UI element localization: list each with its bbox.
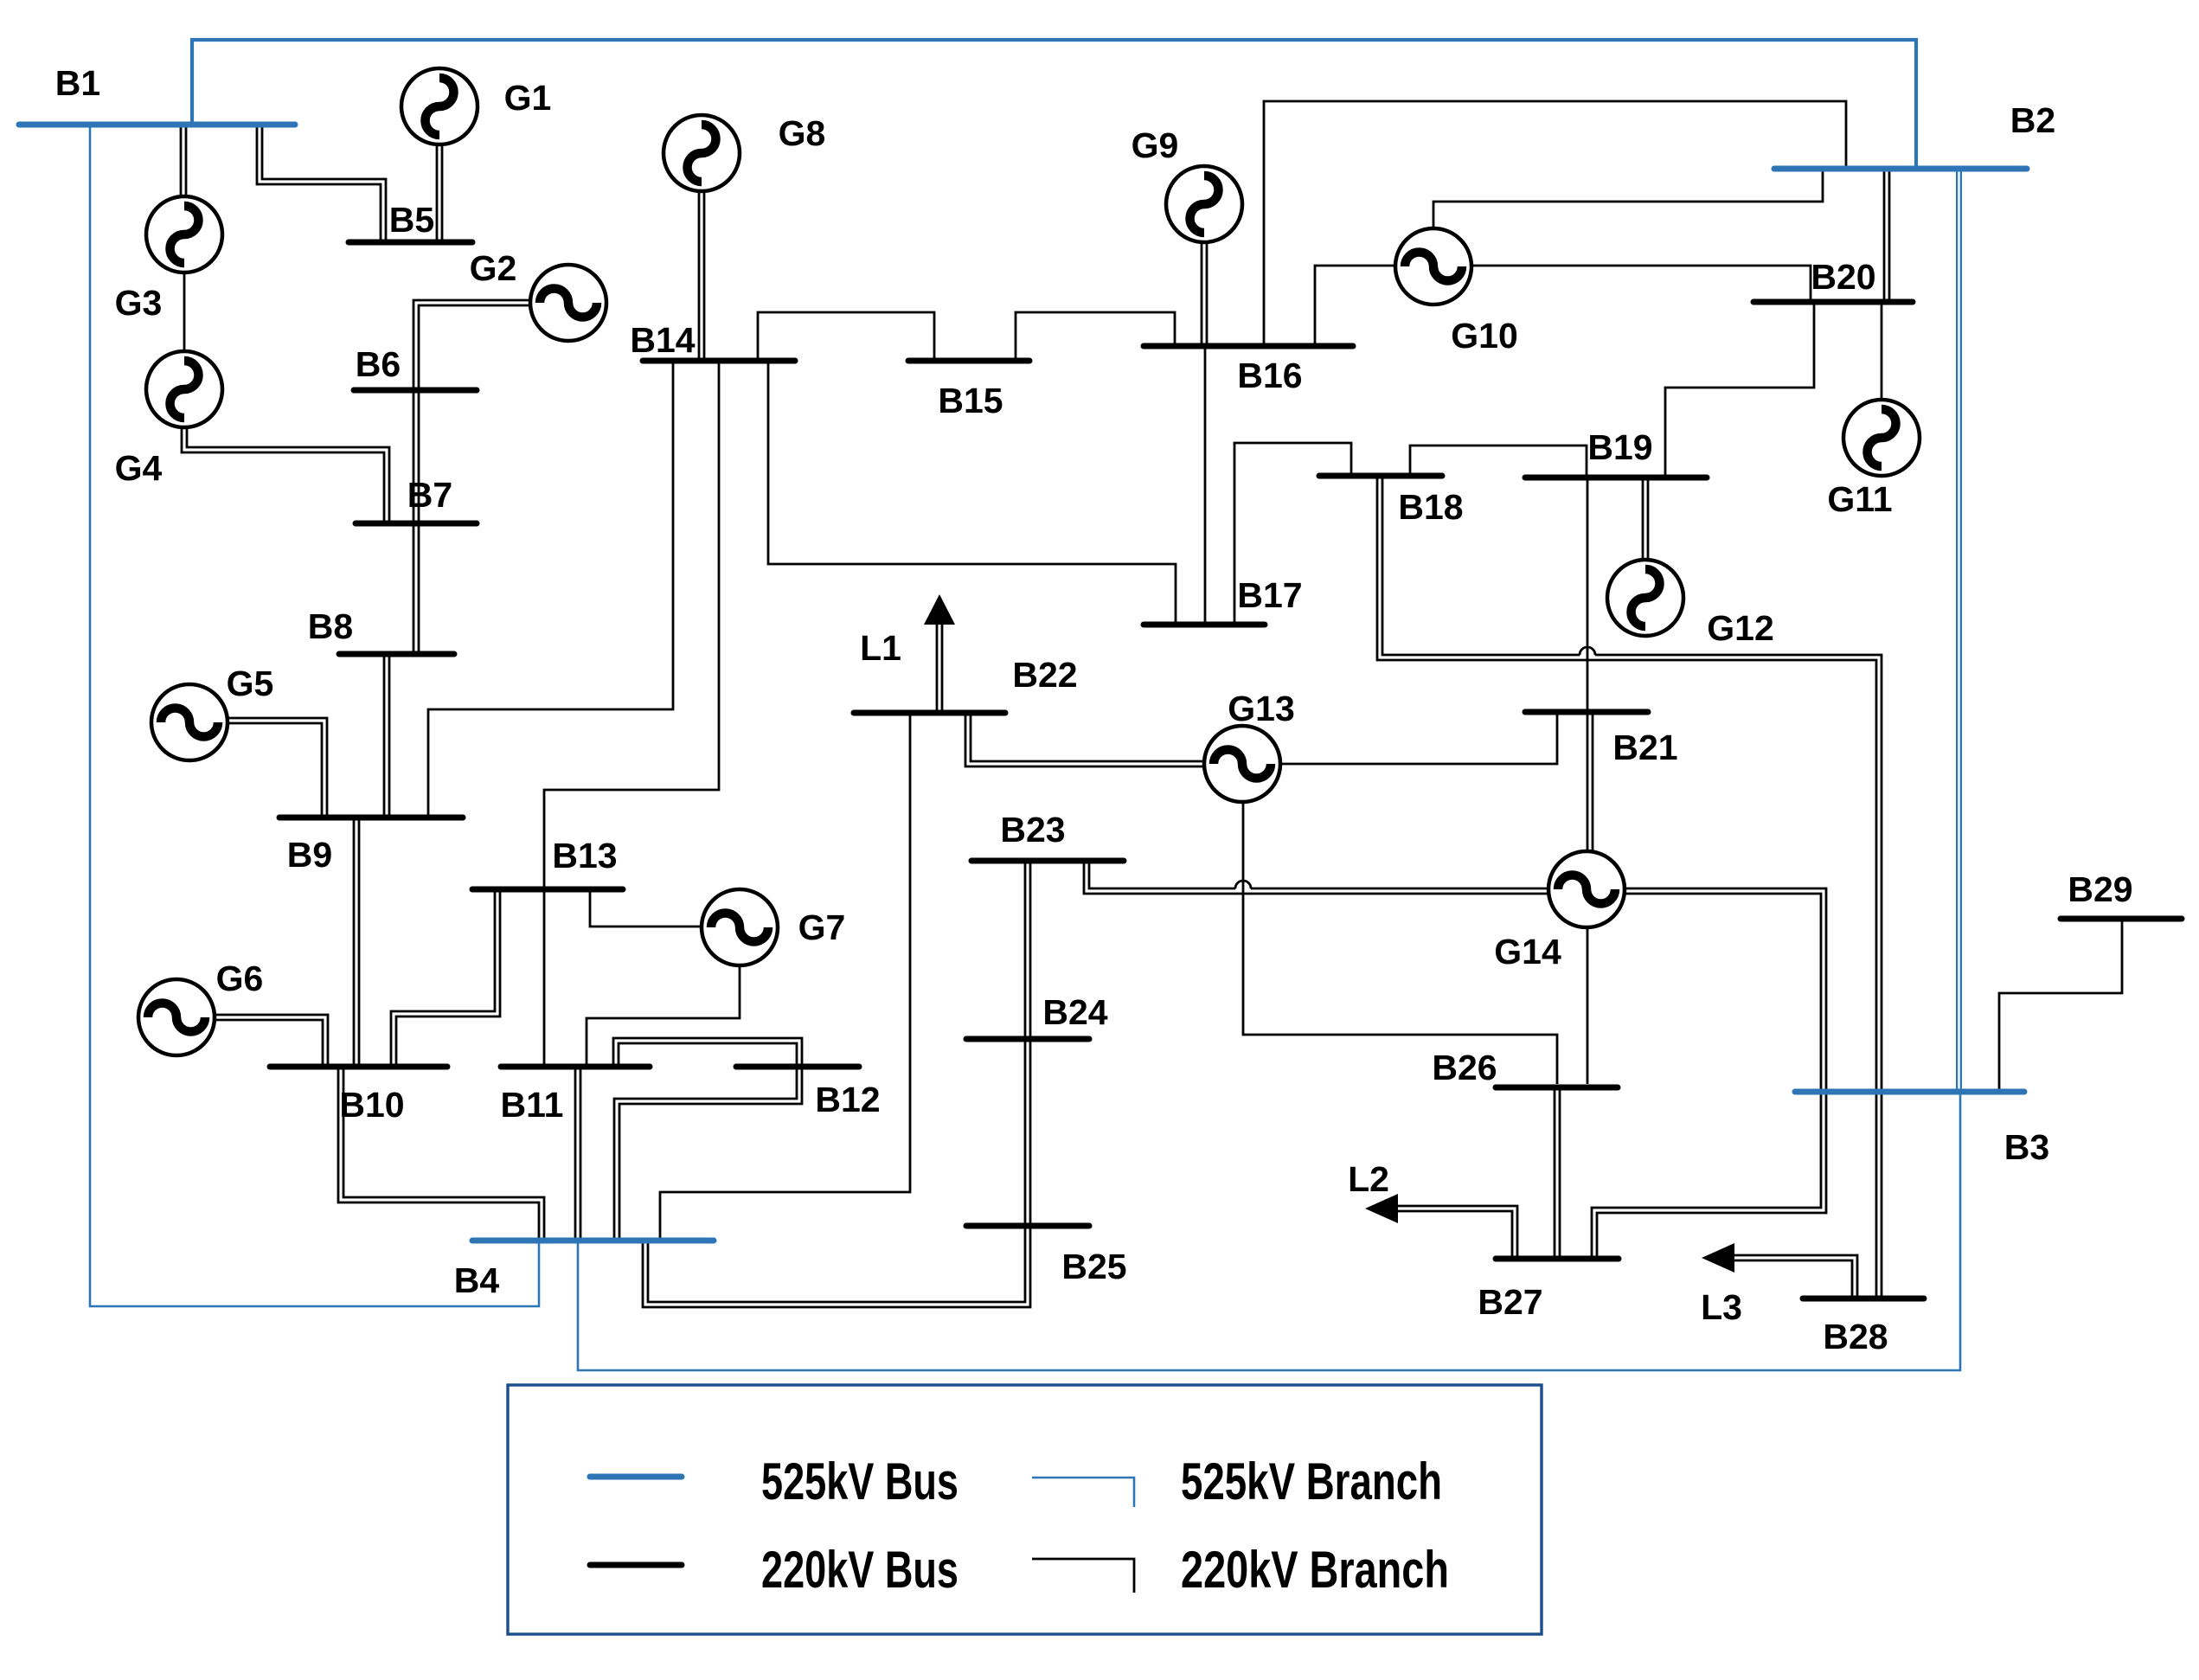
wire G10 to B20 <box>1471 266 1811 302</box>
load L2 arrow head <box>1365 1194 1398 1223</box>
wire G6 to B10 (double-circuit branch) <box>213 1017 325 1067</box>
svg-text:G8: G8 <box>779 113 826 153</box>
svg-text:B9: B9 <box>287 835 332 875</box>
svg-text:G2: G2 <box>470 248 517 288</box>
bus B27 (220kV) <box>1496 1256 1619 1262</box>
bus B4 (525kV) <box>472 1238 714 1244</box>
svg-text:B5: B5 <box>389 200 434 240</box>
wire B9 to B10 (double-circuit branch) <box>353 818 361 1067</box>
bus B29 (220kV) <box>2061 916 2182 922</box>
svg-text:B23: B23 <box>1000 810 1065 850</box>
bus B5 (220kV) <box>349 240 472 246</box>
generator G7 <box>702 889 778 965</box>
wire B20 to G11 <box>1881 302 1883 400</box>
svg-text:B10: B10 <box>339 1085 404 1125</box>
svg-text:G5: G5 <box>227 664 274 703</box>
bus B19 (220kV) <box>1525 475 1707 481</box>
wire B14 to B15 <box>758 312 934 361</box>
bus B9 (220kV) <box>279 815 463 821</box>
legend 525kV bus sample <box>590 1474 682 1480</box>
generator G10 <box>1395 228 1471 305</box>
wire B4 to B3 (bottom tie) (525kV branch) <box>578 1092 1960 1370</box>
legend box <box>508 1385 1542 1634</box>
wire load L3 feeder (double-circuit branch) <box>1734 1258 1855 1298</box>
svg-text:B26: B26 <box>1432 1048 1497 1087</box>
bus B25 (220kV) <box>966 1223 1089 1229</box>
wire B2 to B20 (double-circuit branch) <box>1883 169 1891 302</box>
bus B12 (220kV) <box>736 1064 859 1070</box>
svg-text:G9: G9 <box>1132 125 1179 165</box>
svg-text:220kV Branch: 220kV Branch <box>1181 1541 1449 1599</box>
legend 220kV branch sample <box>1032 1559 1134 1593</box>
generator G1 <box>401 68 478 144</box>
generator G5 <box>151 684 228 760</box>
wire G8 to B14 (double-circuit branch) <box>698 191 706 361</box>
svg-text:B25: B25 <box>1061 1247 1126 1286</box>
svg-text:B15: B15 <box>938 381 1003 420</box>
svg-text:B8: B8 <box>308 606 353 646</box>
wire B1 to B4 (left tie) (525kV branch) <box>90 125 539 1306</box>
bus B11 (220kV) <box>501 1064 650 1070</box>
svg-text:525kV Branch: 525kV Branch <box>1181 1452 1442 1510</box>
wire B2 to B3 (double 525kV branch) <box>1956 169 1962 1092</box>
svg-text:G13: G13 <box>1228 689 1295 728</box>
wire G13 to B21 <box>1280 712 1557 764</box>
bus B3 (525kV) <box>1795 1089 2024 1095</box>
bus B17 (220kV) <box>1144 622 1265 628</box>
svg-text:G11: G11 <box>1827 479 1892 519</box>
wire G1 to B5 (double-circuit branch) <box>436 144 444 242</box>
svg-text:B28: B28 <box>1823 1317 1888 1356</box>
bus B8 (220kV) <box>339 651 454 657</box>
legend 525kV branch sample <box>1032 1478 1134 1507</box>
wire G7 to B11 <box>587 965 740 1067</box>
wire B19 to G12 (double-circuit branch) <box>1642 478 1650 560</box>
generator G8 <box>664 115 740 191</box>
wire B21 to G14 (double-circuit branch) <box>1587 712 1594 851</box>
wire B1 to B5 (double-circuit branch) <box>260 125 383 242</box>
generator G6 <box>138 979 215 1055</box>
wire G4 to B7 (double-circuit branch) <box>184 426 387 523</box>
bus B14 (220kV) <box>643 358 795 364</box>
wire load L1 feeder (double-circuit branch) <box>936 623 944 713</box>
svg-text:B12: B12 <box>815 1080 880 1119</box>
svg-text:B21: B21 <box>1612 728 1677 767</box>
wire B26 to B27 (double-circuit branch) <box>1554 1087 1561 1259</box>
svg-text:G7: G7 <box>798 907 846 947</box>
svg-text:B6: B6 <box>356 344 401 384</box>
wire B12 to B4 (double-circuit branch) <box>617 1067 799 1241</box>
wire hop at G13-B26 crossing G14 branch <box>1235 881 1251 900</box>
wire B14 to B17 <box>768 361 1176 625</box>
svg-text:B3: B3 <box>2004 1127 2049 1167</box>
wire B8 to B9 (double-circuit branch) <box>383 654 391 818</box>
svg-text:B16: B16 <box>1237 356 1302 395</box>
bus B22 (220kV) <box>854 710 1005 716</box>
svg-text:B29: B29 <box>2068 869 2132 909</box>
svg-text:B27: B27 <box>1478 1282 1542 1322</box>
svg-text:B11: B11 <box>501 1085 564 1125</box>
wire B11 to B4 (double-circuit branch) <box>574 1067 582 1241</box>
bus B7 (220kV) <box>356 521 477 527</box>
wire G14 to B26 <box>1587 927 1589 1084</box>
wire B1 to B2 (top tie) (525kV branch) <box>192 40 1916 169</box>
svg-text:B22: B22 <box>1012 655 1077 695</box>
svg-text:G10: G10 <box>1451 316 1518 356</box>
svg-text:L3: L3 <box>1701 1287 1742 1327</box>
bus B16 (220kV) <box>1144 343 1353 349</box>
svg-text:B7: B7 <box>407 475 452 515</box>
svg-text:220kV Bus: 220kV Bus <box>761 1541 958 1599</box>
wire G10 to B16 <box>1315 266 1395 346</box>
bus B2 (525kV) <box>1774 166 2027 172</box>
svg-text:B4: B4 <box>454 1260 500 1300</box>
bus B10 (220kV) <box>270 1064 447 1070</box>
wire B22 to B23 <box>909 713 912 861</box>
generator G13 <box>1204 726 1280 802</box>
wire G3 to G4 <box>183 272 186 352</box>
svg-text:L1: L1 <box>860 628 901 668</box>
wire B18 to B3 to B28 (double-circuit branch) <box>1380 476 1879 1298</box>
svg-text:B20: B20 <box>1811 257 1875 297</box>
svg-text:B19: B19 <box>1587 427 1652 467</box>
generator G4 <box>146 351 222 427</box>
wire B16 to B2 <box>1264 101 1846 346</box>
wire B15 to B16 <box>1016 312 1175 361</box>
svg-text:B14: B14 <box>630 320 695 360</box>
svg-text:B17: B17 <box>1237 575 1302 615</box>
generator G12 <box>1607 560 1683 636</box>
svg-text:G4: G4 <box>115 448 163 488</box>
svg-text:B2: B2 <box>2010 100 2055 140</box>
svg-text:G12: G12 <box>1707 608 1774 648</box>
bus B18 (220kV) <box>1319 473 1442 479</box>
wire B19 to B21 <box>1587 478 1589 712</box>
generator G3 <box>146 196 222 273</box>
svg-text:G14: G14 <box>1494 932 1561 971</box>
generator G14 <box>1548 851 1625 927</box>
wire hop at B19-B21 crossing B18 branch <box>1580 647 1595 666</box>
bus B15 (220kV) <box>908 358 1029 364</box>
generator G11 <box>1843 400 1920 476</box>
bus B23 (220kV) <box>971 858 1124 864</box>
wire G2 to B6 to B7 to B8 (double-circuit branch) <box>416 303 531 654</box>
wire B19 to B20 <box>1665 302 1814 478</box>
wire B22 to G13 (double-circuit branch) <box>968 713 1204 764</box>
bus B26 (220kV) <box>1496 1085 1618 1091</box>
legend 220kV bus sample <box>590 1562 682 1568</box>
wire B13 to G7 <box>590 889 702 927</box>
wire B11 to B12 upper loop (double-circuit branch) <box>616 1041 799 1067</box>
wire G10 to B2 <box>1433 169 1823 228</box>
wire G13 to B26 <box>1243 802 1557 1084</box>
svg-text:G3: G3 <box>115 283 163 323</box>
svg-text:B18: B18 <box>1398 487 1463 527</box>
wire B13 to B10 (double-circuit branch) <box>394 889 497 1067</box>
svg-text:L2: L2 <box>1348 1159 1389 1199</box>
svg-text:525kV Bus: 525kV Bus <box>761 1452 958 1510</box>
bus B28 (220kV) <box>1803 1296 1924 1302</box>
wire B14 to B13 to B11 <box>544 361 719 1067</box>
bus B1 (525kV) <box>19 122 295 128</box>
wire G9 to B16 (double-circuit branch) <box>1201 242 1208 346</box>
svg-text:G1: G1 <box>504 78 552 118</box>
svg-text:G6: G6 <box>216 959 264 998</box>
wire B1 to G3 (double-circuit branch) <box>180 125 188 197</box>
generator G2 <box>530 265 606 341</box>
wire G14 to B3 to B27 (double-circuit branch) <box>1594 891 1824 1259</box>
bus B24 (220kV) <box>966 1036 1089 1042</box>
wire B16 to B17 <box>1204 346 1207 625</box>
load L1 arrow head <box>924 594 955 625</box>
bus B20 (220kV) <box>1753 299 1913 305</box>
svg-text:B1: B1 <box>55 63 100 103</box>
wire B23 to B24 to B25 to B4 (double-circuit branch) <box>645 861 1028 1305</box>
wire B23 to G14 (double-circuit branch) <box>1087 861 1548 891</box>
bus B21 (220kV) <box>1525 709 1648 715</box>
wire G5 to B9 (double-circuit branch) <box>228 721 324 818</box>
wire B23 to B4 <box>660 861 910 1241</box>
wire B18 to B19 <box>1410 446 1587 478</box>
load L3 arrow head <box>1702 1243 1734 1273</box>
wire B17 to B18 <box>1234 443 1351 625</box>
wire B10 to B4 (double-circuit branch) <box>341 1067 542 1241</box>
bus B13 (220kV) <box>472 887 623 893</box>
bus B6 (220kV) <box>354 388 477 394</box>
wire B29 to B3 <box>1999 919 2122 1092</box>
svg-text:B13: B13 <box>552 836 617 875</box>
wire B14 to B9 <box>428 361 673 818</box>
wire load L2 feeder (double-circuit branch) <box>1396 1209 1515 1259</box>
generator G9 <box>1166 166 1242 242</box>
svg-text:B24: B24 <box>1042 992 1107 1032</box>
